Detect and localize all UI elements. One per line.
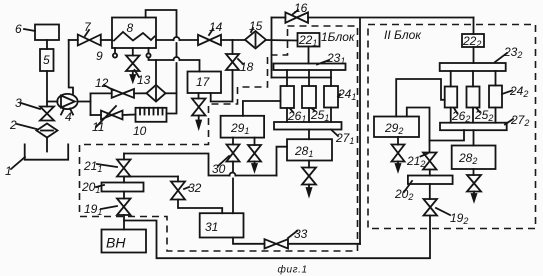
svg-text:32: 32 [188, 181, 202, 195]
svg-text:1: 1 [5, 164, 12, 178]
svg-text:II Блок: II Блок [384, 28, 422, 42]
svg-text:1Блок: 1Блок [321, 30, 356, 44]
svg-text:292: 292 [384, 121, 403, 136]
svg-text:18: 18 [240, 60, 254, 74]
svg-text:272: 272 [510, 113, 529, 128]
svg-text:14: 14 [209, 20, 223, 34]
svg-text:281: 281 [294, 144, 313, 159]
svg-text:11: 11 [92, 120, 104, 134]
svg-text:261: 261 [287, 109, 306, 124]
svg-text:17: 17 [196, 75, 211, 89]
svg-text:252: 252 [474, 108, 493, 123]
svg-text:5: 5 [43, 53, 50, 67]
svg-text:33: 33 [294, 227, 308, 241]
svg-text:3: 3 [15, 96, 22, 110]
svg-text:222: 222 [462, 34, 481, 49]
svg-text:231: 231 [326, 51, 345, 66]
svg-text:8: 8 [127, 21, 134, 35]
svg-text:2: 2 [9, 118, 17, 132]
svg-text:241: 241 [337, 87, 356, 102]
svg-text:15: 15 [249, 19, 263, 33]
svg-text:4: 4 [65, 110, 72, 124]
svg-text:30: 30 [212, 162, 226, 176]
svg-text:фиг.1: фиг.1 [278, 264, 308, 276]
svg-text:ВН: ВН [106, 235, 126, 251]
svg-text:16: 16 [294, 1, 308, 15]
svg-text:9: 9 [96, 49, 103, 63]
svg-text:12: 12 [95, 76, 109, 90]
svg-text:31: 31 [205, 220, 218, 234]
svg-text:291: 291 [230, 121, 249, 136]
svg-text:192: 192 [450, 211, 468, 226]
svg-text:201: 201 [81, 180, 100, 195]
svg-text:232: 232 [503, 45, 522, 60]
svg-text:13: 13 [137, 73, 151, 87]
svg-text:6: 6 [15, 22, 22, 36]
svg-text:262: 262 [451, 109, 470, 124]
svg-text:7: 7 [84, 20, 92, 34]
svg-text:191: 191 [84, 202, 102, 217]
svg-text:10: 10 [133, 124, 147, 138]
svg-text:202: 202 [394, 187, 413, 202]
svg-text:251: 251 [310, 108, 329, 123]
svg-text:221: 221 [298, 33, 317, 48]
svg-text:282: 282 [458, 151, 477, 166]
svg-text:242: 242 [509, 84, 528, 99]
svg-text:271: 271 [335, 131, 354, 146]
svg-text:211: 211 [83, 159, 102, 174]
